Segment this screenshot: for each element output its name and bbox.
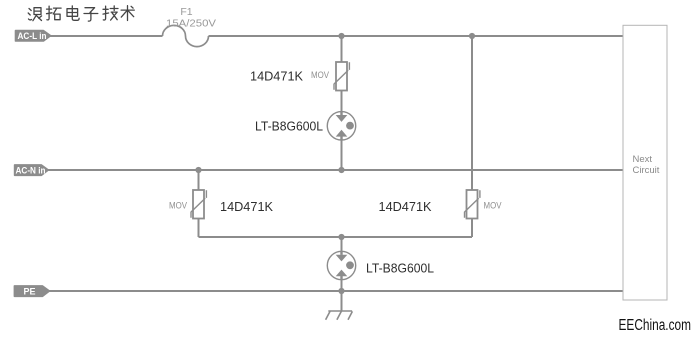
wire vertical branch L (x=341.5) from AC-L to AC-N — [341, 36, 343, 170]
ground symbol — [326, 311, 353, 320]
junction node PE / GT2 — [338, 288, 344, 294]
connector AC-L in — [16, 31, 51, 42]
svg-text:14D471K: 14D471K — [379, 199, 432, 214]
svg-text:15A/250V: 15A/250V — [166, 18, 216, 30]
varistor RV1 (14D471K, AC-L branch) — [334, 62, 349, 91]
svg-text:LT-B8G600L: LT-B8G600L — [366, 261, 434, 276]
title watermark 浪拓电子技术 — [28, 6, 134, 21]
svg-text:14D471K: 14D471K — [250, 69, 303, 84]
junction node AC-L / RV1 branch — [338, 33, 344, 39]
junction node AC-N / GT1 branch — [338, 167, 344, 173]
svg-text:MOV: MOV — [484, 201, 502, 211]
wire GDT2 branch (x=341.5) bus to PE — [341, 237, 343, 291]
junction node AC-N / RV2 branch — [195, 167, 201, 173]
wire AC-L net (y=36) — [50, 35, 623, 37]
gas discharge tube GT2 (LT-B8G600L, N-PE branch) — [327, 251, 355, 280]
connector AC-N in — [15, 165, 49, 176]
next circuit block — [623, 25, 667, 300]
varistor RV2 (14D471K, AC-N branch) — [191, 190, 206, 219]
wire PE net (y=291) — [49, 290, 623, 292]
svg-text:EEChina.com: EEChina.com — [619, 317, 692, 334]
svg-text:F1: F1 — [180, 6, 192, 18]
svg-text:MOV: MOV — [311, 70, 329, 80]
wire vertical branch N (x=198.5) from AC-N to bottom bus — [198, 170, 200, 237]
junction node AC-L / RV3 branch — [469, 33, 475, 39]
svg-text:14D471K: 14D471K — [220, 199, 273, 214]
junction node bottom bus / GT2 — [338, 234, 344, 240]
svg-text:MOV: MOV — [169, 201, 187, 211]
svg-text:Next: Next — [633, 154, 653, 165]
svg-text:LT-B8G600L: LT-B8G600L — [255, 119, 323, 134]
wire ground stub below PE — [341, 291, 343, 311]
connector PE — [14, 286, 49, 297]
svg-text:AC-N in: AC-N in — [16, 166, 46, 176]
wire AC-N net (y=170) — [48, 169, 623, 171]
varistor RV3 (14D471K, L-N branch) — [465, 190, 480, 219]
wire bottom bus (y=237) — [199, 236, 473, 238]
gas discharge tube GT1 (LT-B8G600L, AC-L branch) — [327, 112, 355, 140]
svg-text:PE: PE — [23, 287, 35, 297]
svg-text:Circuit: Circuit — [633, 165, 660, 176]
svg-text:AC-L in: AC-L in — [18, 31, 47, 41]
fuse F1 — [163, 25, 209, 46]
wire vertical branch L-N (x=472) from AC-L to bottom bus — [471, 36, 473, 237]
